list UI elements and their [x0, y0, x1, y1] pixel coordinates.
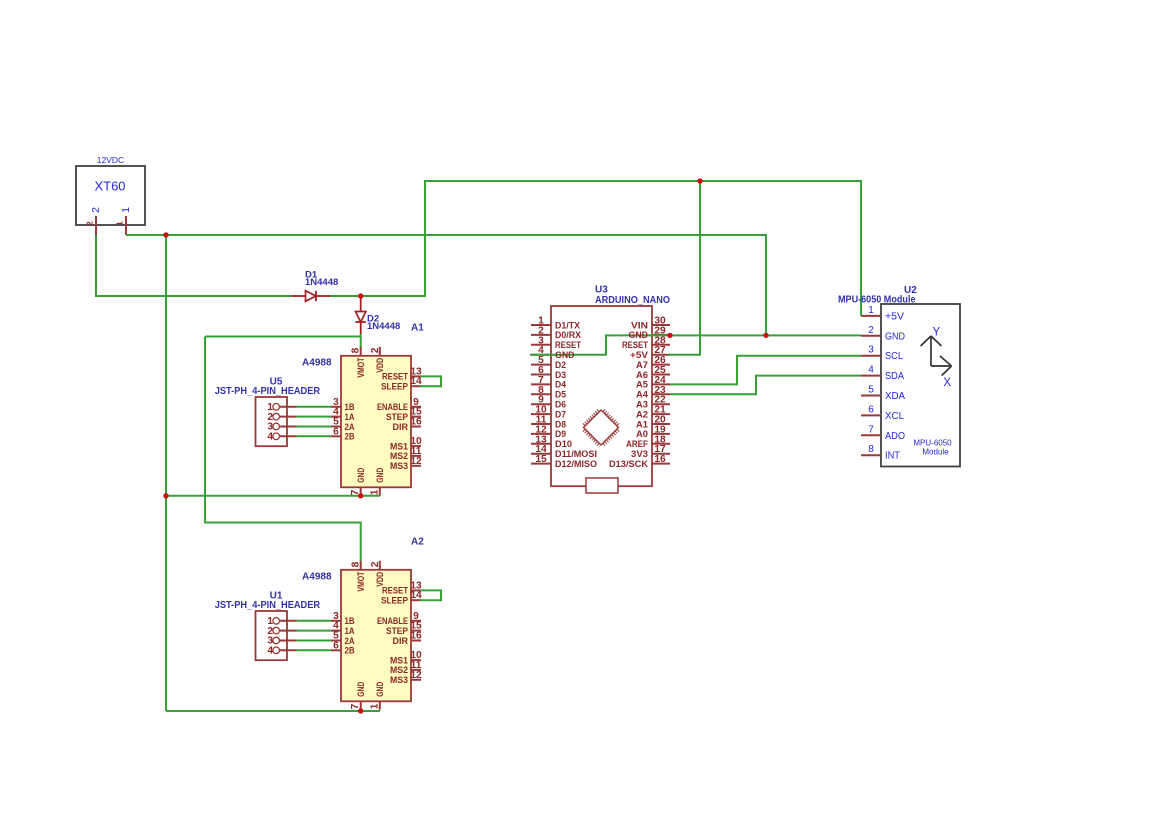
svg-text:GND: GND: [356, 468, 367, 483]
svg-text:8: 8: [868, 444, 874, 455]
svg-text:16: 16: [410, 631, 422, 642]
svg-text:JST-PH_4-PIN_HEADER: JST-PH_4-PIN_HEADER: [215, 600, 321, 611]
svg-text:SLEEP: SLEEP: [381, 596, 409, 607]
svg-text:A4988: A4988: [302, 358, 332, 369]
svg-text:GND: GND: [885, 331, 905, 342]
svg-text:4: 4: [868, 365, 874, 376]
svg-text:SDA: SDA: [885, 371, 904, 382]
svg-text:DIR: DIR: [393, 636, 409, 647]
svg-text:Module: Module: [922, 448, 949, 457]
svg-text:12: 12: [410, 456, 422, 467]
svg-text:5: 5: [868, 385, 874, 396]
svg-text:XT60: XT60: [94, 179, 125, 194]
svg-text:1: 1: [120, 207, 132, 213]
svg-text:1N4448: 1N4448: [367, 321, 400, 332]
svg-text:X: X: [943, 377, 951, 389]
svg-text:2: 2: [90, 207, 102, 213]
svg-text:MS3: MS3: [390, 461, 408, 472]
svg-text:XDA: XDA: [885, 391, 905, 402]
svg-text:1: 1: [868, 305, 874, 316]
svg-text:A4988: A4988: [302, 572, 332, 583]
svg-text:16: 16: [654, 454, 666, 465]
svg-text:8: 8: [351, 561, 362, 567]
svg-text:1N4448: 1N4448: [305, 277, 338, 288]
svg-text:1: 1: [114, 221, 124, 226]
svg-text:2: 2: [370, 347, 381, 353]
svg-text:2: 2: [84, 221, 94, 226]
svg-text:VMOT: VMOT: [356, 357, 367, 377]
svg-text:VDD: VDD: [375, 358, 386, 373]
svg-text:D13/SCK: D13/SCK: [609, 459, 648, 470]
svg-text:4: 4: [267, 646, 273, 657]
svg-text:XCL: XCL: [885, 411, 904, 422]
svg-text:A2: A2: [411, 537, 424, 548]
svg-text:+5V: +5V: [885, 311, 904, 322]
svg-text:6: 6: [333, 426, 339, 437]
svg-text:GND: GND: [375, 682, 386, 697]
svg-text:7: 7: [350, 703, 361, 709]
svg-text:4: 4: [267, 432, 273, 443]
svg-text:INT: INT: [885, 451, 900, 462]
svg-text:VMOT: VMOT: [356, 571, 367, 591]
svg-text:ADO: ADO: [885, 431, 905, 442]
svg-text:12: 12: [410, 670, 422, 681]
svg-text:SLEEP: SLEEP: [381, 382, 409, 393]
svg-text:7: 7: [868, 424, 874, 435]
svg-text:DIR: DIR: [393, 422, 409, 433]
svg-text:2: 2: [868, 325, 874, 336]
svg-text:U3: U3: [595, 285, 608, 296]
svg-text:1: 1: [369, 489, 380, 495]
svg-text:6: 6: [868, 404, 874, 415]
svg-text:SCL: SCL: [885, 351, 903, 362]
svg-text:GND: GND: [375, 468, 386, 483]
svg-text:2: 2: [370, 561, 381, 567]
svg-text:6: 6: [333, 640, 339, 651]
svg-text:ARDUINO_NANO: ARDUINO_NANO: [595, 295, 670, 306]
svg-text:15: 15: [535, 454, 547, 465]
svg-text:JST-PH_4-PIN_HEADER: JST-PH_4-PIN_HEADER: [215, 386, 321, 397]
svg-text:Y: Y: [932, 327, 940, 339]
svg-text:MPU-6050 Module: MPU-6050 Module: [838, 295, 916, 306]
svg-text:1: 1: [369, 703, 380, 709]
svg-text:GND: GND: [356, 682, 367, 697]
svg-text:2B: 2B: [345, 646, 355, 657]
svg-text:3: 3: [868, 345, 874, 356]
svg-text:14: 14: [410, 376, 422, 387]
svg-text:VDD: VDD: [375, 572, 386, 587]
svg-text:8: 8: [351, 347, 362, 353]
svg-text:2B: 2B: [345, 432, 355, 443]
svg-text:MPU-6050: MPU-6050: [913, 439, 952, 448]
svg-text:A1: A1: [411, 323, 424, 334]
svg-text:7: 7: [350, 489, 361, 495]
svg-text:14: 14: [410, 590, 422, 601]
svg-text:16: 16: [410, 417, 422, 428]
svg-text:D12/MISO: D12/MISO: [555, 459, 597, 470]
svg-text:MS3: MS3: [390, 675, 408, 686]
svg-text:12VDC: 12VDC: [97, 155, 124, 165]
